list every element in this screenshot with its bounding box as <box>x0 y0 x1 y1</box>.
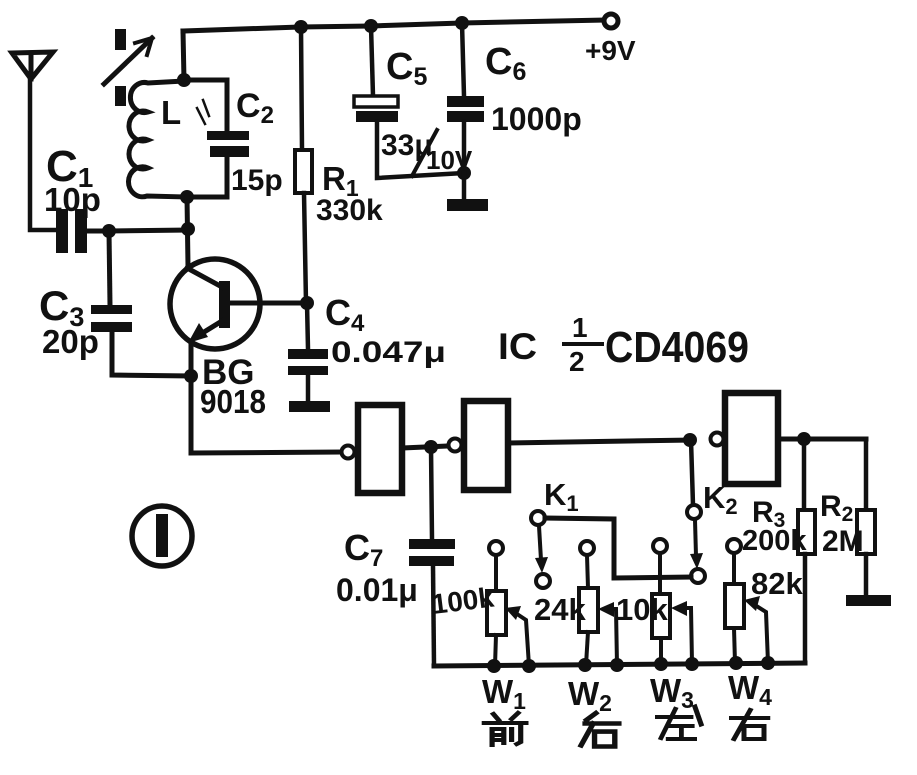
label 200k value of R3 <box>742 525 807 557</box>
potentiometer W4 82k <box>725 539 768 663</box>
svg-text:+9V: +9V <box>585 35 636 66</box>
node W2 wiper <box>610 658 624 672</box>
label C3 <box>39 282 84 332</box>
label +9V <box>585 35 636 66</box>
node C1-C3 junction <box>102 224 116 238</box>
svg-text:10k: 10k <box>616 592 668 627</box>
inverter U1c body <box>725 393 778 484</box>
resistor R1 330k <box>295 27 312 303</box>
node W3 wiper <box>685 657 699 671</box>
label 1000p value of C6 <box>491 101 582 137</box>
label R1 <box>322 160 359 201</box>
trimmer arrow over L (adjustable core symbol) <box>104 29 152 106</box>
label L <box>161 94 181 131</box>
svg-text:L: L <box>161 94 181 131</box>
label C6 <box>485 41 526 86</box>
terminal +9V <box>604 14 618 28</box>
ground at C4 <box>289 401 330 412</box>
tick mark between zuo and you <box>695 707 701 724</box>
wire U1c output <box>778 437 866 442</box>
label qian (front) under W1 <box>484 713 526 745</box>
label you (right) under W4 <box>732 710 768 739</box>
scratch marks near L (scan artifact) <box>197 100 209 124</box>
svg-text:1: 1 <box>572 312 588 343</box>
node rail-C6 junction <box>455 16 469 30</box>
wire rail to LC tank top <box>183 31 184 80</box>
svg-text:IC: IC <box>498 326 537 367</box>
inverter U1a input bubble <box>342 446 355 459</box>
label C4 <box>325 292 365 337</box>
wire base line to R1/C4 node <box>231 301 307 306</box>
label figure number 1 circled <box>132 506 192 566</box>
capacitor C3 <box>91 231 191 376</box>
potentiometer W3 10k <box>652 539 692 663</box>
potentiometer W1 100k <box>487 541 529 666</box>
inductor L <box>129 81 187 197</box>
wire K1 to K2 bottom contact <box>545 518 691 578</box>
antenna <box>12 52 56 230</box>
label 15p value of C2 <box>231 164 283 197</box>
svg-text:200k: 200k <box>742 525 807 557</box>
svg-text:2: 2 <box>569 346 585 377</box>
label R2 <box>820 490 853 526</box>
wire C1 to base junction row <box>109 230 188 231</box>
svg-text:20p: 20p <box>42 323 99 360</box>
label R3 <box>752 496 785 532</box>
node U1a-C7 junction <box>424 440 438 454</box>
potentiometer W2 24k <box>579 541 617 665</box>
node W4 wiper <box>761 656 775 670</box>
inverter U1b input bubble <box>449 439 462 452</box>
svg-text:10p: 10p <box>44 181 101 218</box>
label K2 <box>703 480 738 519</box>
wire U1a output to U1b <box>402 446 448 448</box>
label 10k value of W3 <box>616 592 668 627</box>
svg-text:33μ: 33μ <box>381 129 433 162</box>
node R3 branch <box>797 432 811 446</box>
switch K2 <box>687 440 705 583</box>
label C7 <box>344 527 383 572</box>
svg-text:15p: 15p <box>231 164 283 197</box>
svg-text:2M: 2M <box>822 525 864 558</box>
wire +9V top supply rail <box>183 20 604 31</box>
transistor BG 9018 <box>170 259 260 376</box>
label W3 <box>650 672 694 713</box>
node tank bottom <box>180 190 194 204</box>
label 0.047u value of C4 <box>331 336 446 369</box>
node rail-R1 junction <box>294 20 308 34</box>
svg-text:82k: 82k <box>751 566 803 601</box>
svg-text:1000p: 1000p <box>491 101 582 137</box>
label hou (rear) under W2 <box>581 713 619 746</box>
capacitor C4 <box>288 303 328 401</box>
label C2 <box>236 87 274 129</box>
label 33u/10V value of C5 <box>381 129 473 176</box>
svg-text:0.047μ: 0.047μ <box>331 336 446 369</box>
switch K1 <box>531 511 550 588</box>
ground below C6 <box>447 173 488 211</box>
node W2 bottom <box>578 658 592 672</box>
label zuo (left) under W3 <box>657 709 694 739</box>
label K1 <box>544 477 579 516</box>
inverter U1b body <box>464 401 508 490</box>
node C5-C6-ground <box>457 166 471 180</box>
label 20p value of C3 <box>42 323 99 360</box>
capacitor C7 <box>409 447 455 665</box>
label 24k value of W2 <box>534 592 586 627</box>
svg-text:0.01μ: 0.01μ <box>336 572 418 608</box>
label W2 <box>568 675 612 716</box>
capacitor C6 <box>447 23 484 173</box>
resistor R2 2M <box>857 439 875 595</box>
label C5 <box>386 46 427 91</box>
label 330k value of R1 <box>316 194 383 227</box>
node W1 wiper <box>522 659 536 673</box>
node tank top <box>177 73 191 87</box>
node W4 bottom <box>729 656 743 670</box>
svg-text:9018: 9018 <box>200 383 266 420</box>
node W3 bottom <box>654 657 668 671</box>
capacitor C5 electrolytic <box>354 26 464 178</box>
label 100k value of W1 <box>430 582 496 620</box>
svg-text:24k: 24k <box>534 592 586 627</box>
label 2M value of R2 <box>822 525 864 558</box>
label 0.01u value of C7 <box>336 572 418 608</box>
label W1 <box>482 673 526 714</box>
svg-text:CD4069: CD4069 <box>605 323 749 372</box>
label BG <box>202 353 255 392</box>
node rail-C5 junction <box>364 19 378 33</box>
wire bottom common bus <box>434 663 805 666</box>
capacitor C2 <box>184 80 249 197</box>
wire emitter to inverter 1 input <box>191 376 341 453</box>
resistor R3 200k <box>798 439 815 663</box>
label IC 1/2 CD4069 <box>498 312 749 377</box>
svg-text:330k: 330k <box>316 194 383 227</box>
label 10p value of C1 <box>44 181 101 218</box>
node emitter-C3 junction <box>184 369 198 383</box>
capacitor C1 <box>56 209 109 253</box>
wire U1b output to U1c <box>508 440 692 443</box>
node W1 bottom <box>487 659 501 673</box>
label 9018 <box>200 383 266 420</box>
inverter U1c input bubble <box>711 433 724 446</box>
label C1 <box>46 142 93 193</box>
label W4 <box>728 669 772 710</box>
inverter U1a body <box>358 405 402 493</box>
node row-tank junction <box>181 222 195 236</box>
label 82k value of W4 <box>751 566 803 601</box>
wire tank bottom to transistor <box>187 197 188 266</box>
ground below R2 <box>846 595 891 606</box>
node K2 branch <box>683 433 697 447</box>
node C4-R1-base <box>300 296 314 310</box>
